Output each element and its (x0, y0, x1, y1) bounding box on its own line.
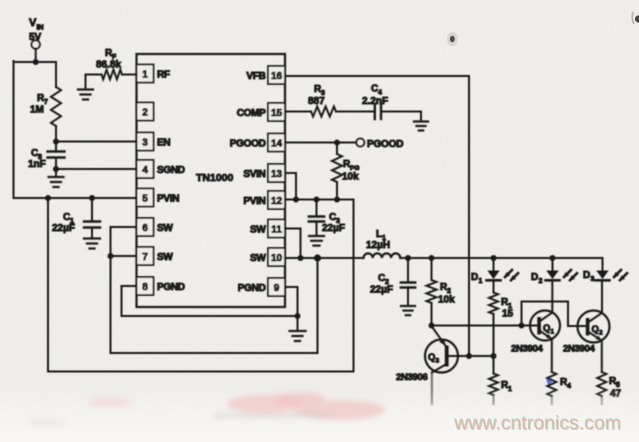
resistor R4 (547, 372, 571, 396)
pin 11 box (SW) (250, 220, 285, 238)
ground below C3 (309, 222, 324, 246)
pin 16 box (VFB) (246, 66, 285, 84)
capacitor C4 2.2nF (362, 84, 388, 120)
node PGND junction (295, 313, 301, 319)
wire RPG to rail (336, 182, 338, 200)
wire PGOOD to RPG (336, 143, 338, 155)
pin 3 box (EN) (137, 133, 171, 151)
ground below C1 (84, 228, 100, 249)
wire outer loop bottom (48, 371, 354, 373)
LED D1 (471, 270, 518, 285)
node D2 junction (550, 255, 556, 261)
ground PGND (290, 316, 306, 341)
pin 14 box (PGOOD) (230, 134, 285, 152)
wire over-route to Q2 base (522, 302, 587, 327)
wire pin 9 PGND stub (285, 286, 298, 288)
wire Q1 emitter to R4 (551, 340, 553, 373)
wire PGND loop bottom (122, 315, 298, 317)
decorative: watermark www.cntronics.com (453, 412, 622, 435)
wire Q3 collector down fading (431, 373, 433, 405)
transistor Q3 2N3906 (396, 326, 458, 383)
wire SGND node to pin 4 (56, 168, 137, 170)
wire PGOOD pin14 (285, 142, 357, 144)
wire C1 top lead (91, 198, 93, 222)
decorative: bottom fade wash (0, 388, 639, 437)
wire R1 bottom fading (493, 395, 495, 404)
node C1 junction (89, 195, 95, 201)
decorative: pink smudges (30, 392, 385, 424)
ground at C4 (414, 122, 428, 131)
node R2 junction (429, 255, 435, 261)
node EN junction (53, 139, 59, 145)
LED D2 (531, 270, 577, 285)
op-amp U1 TN1000 IC body (137, 54, 286, 307)
pin 1 box (RF) (137, 65, 170, 83)
pin 2 box (NC) (137, 103, 154, 121)
resistor RF 86.8k (96, 48, 122, 79)
wire outer loop left vertical (47, 198, 49, 372)
node Q3 emitter junction (429, 323, 435, 329)
wire PVIN rail left (14, 197, 137, 199)
node SVIN junction (293, 197, 299, 203)
capacitor C2 22uF (370, 273, 415, 296)
cursor artifact blue arrow at R4 (546, 378, 553, 385)
pin 5 box (PVIN) (137, 189, 180, 207)
pin 9 box (PGND) (238, 278, 285, 296)
wire left VIN rail down (13, 61, 15, 198)
pin 4 box (SGND) (137, 160, 185, 178)
wire R15 down to Q3 base node (493, 314, 495, 374)
transistor Q1 2N3904 (511, 311, 560, 355)
ground at RF (78, 90, 93, 100)
wire base bus to Q1 (432, 325, 539, 327)
wire VFB pin16 horizontal (285, 75, 469, 77)
resistor R7 1M (30, 87, 61, 126)
pin 13 box (SVIN) (243, 164, 285, 182)
wire outer loop right vertical (353, 200, 355, 372)
pin 7 box (SW) (137, 247, 174, 265)
node PVIN-loop junction (45, 195, 51, 201)
node D1 junction (491, 255, 497, 261)
wire R5 bottom fading (601, 396, 603, 404)
wire EN node to C8 (55, 142, 57, 152)
node PGOOD junction (334, 140, 340, 146)
resistor R1 (489, 374, 512, 396)
wire SVIN pin13 stub (285, 173, 296, 200)
wire pin 7 SW stub (111, 255, 137, 257)
wire COMP pin15 stub (285, 111, 311, 113)
ground below C8 (49, 169, 64, 187)
node C2 junction (405, 255, 411, 261)
wire C2 top lead (407, 258, 409, 283)
wire D1 anode lead (493, 258, 495, 271)
wire D2 anode lead (552, 258, 554, 271)
wire SW loop bottom (111, 352, 318, 354)
decorative: jpeg speck top right (447, 12, 639, 46)
node PGOOD terminal (356, 139, 403, 151)
wire D2 to Q1 collector (551, 281, 553, 312)
wire SW loop down (110, 256, 112, 353)
wire C4 to ground (381, 112, 421, 122)
wire pin 6 SW stub (111, 226, 137, 228)
wire R2 top lead (431, 258, 433, 280)
capacitor C8 1nF (28, 148, 65, 170)
wire D1 to R15 (493, 281, 495, 293)
wire VIN to R7 (55, 62, 57, 87)
pin 15 box (COMP) (237, 103, 285, 121)
wire D3 to Q2 collector (601, 281, 603, 312)
transistor Q2 2N3904 (563, 311, 610, 355)
node VIN 5V terminal (29, 17, 44, 49)
wire C3 top lead (316, 200, 318, 217)
wire VIN horizontal split (14, 61, 57, 63)
wire R7 to EN node (55, 126, 57, 142)
node RPG junction (334, 197, 340, 203)
wire C8 to SGND node (55, 158, 57, 170)
node SW rail junction (314, 254, 321, 261)
pin 10 box (SW) (250, 248, 285, 266)
resistor R3 887 (308, 84, 336, 117)
wire Q2 emitter to R5 (601, 341, 603, 372)
node pin11 junction (298, 255, 304, 261)
wire Q3 base lead (449, 355, 494, 357)
node Q3 base / VFB junction (466, 353, 472, 359)
wire D3 drop from rail corner (602, 258, 604, 271)
node VIN junction (33, 59, 39, 65)
wire R3 to C4 (336, 111, 374, 113)
resistor R15 (15 ohm) (489, 293, 514, 320)
wire pin 9 down (297, 287, 299, 316)
wire EN node to pin 3 (56, 141, 137, 143)
wire SW loop up to rail (317, 258, 319, 353)
svg-text:www.cntronics.com: www.cntronics.com (454, 413, 622, 435)
node C3 junction (314, 197, 320, 203)
wire output rail (400, 257, 602, 259)
wire ground to RF (86, 75, 102, 90)
resistor R5 47 (597, 372, 621, 400)
wire R4 bottom fading (551, 396, 553, 404)
wire pin 8 PGND stub (122, 285, 137, 287)
wire PVIN right rail (285, 199, 354, 201)
wire R2 bottom lead (431, 303, 433, 326)
node base bus / Q2 takeoff (519, 323, 525, 329)
resistor R2 10k (427, 280, 456, 306)
wire SW rail pin10 (285, 257, 364, 259)
capacitor C1 22uF (52, 212, 100, 234)
inductor L1 12uH (364, 229, 401, 258)
wire VIN terminal to junction (35, 49, 37, 62)
pin 8 box (PGND) (137, 277, 185, 295)
pin 6 box (SW) (137, 218, 174, 236)
LED D3 (583, 270, 627, 283)
node SGND junction (53, 166, 59, 172)
wire PGND loop down (121, 286, 123, 316)
capacitor C3 22uF (309, 212, 345, 234)
node SW tie junction (108, 253, 114, 259)
wire RF to pin 1 (122, 74, 137, 76)
node Q3 base / R1 junction (491, 353, 497, 359)
ground below C2 (401, 288, 415, 316)
pin 12 box (PVIN) (243, 191, 285, 209)
wire VFB vertical feedback (468, 76, 470, 356)
resistor RPG 10k (332, 154, 359, 183)
wire pin6-pin7 vertical (110, 227, 112, 256)
wire pin 11 SW stub (285, 229, 301, 259)
